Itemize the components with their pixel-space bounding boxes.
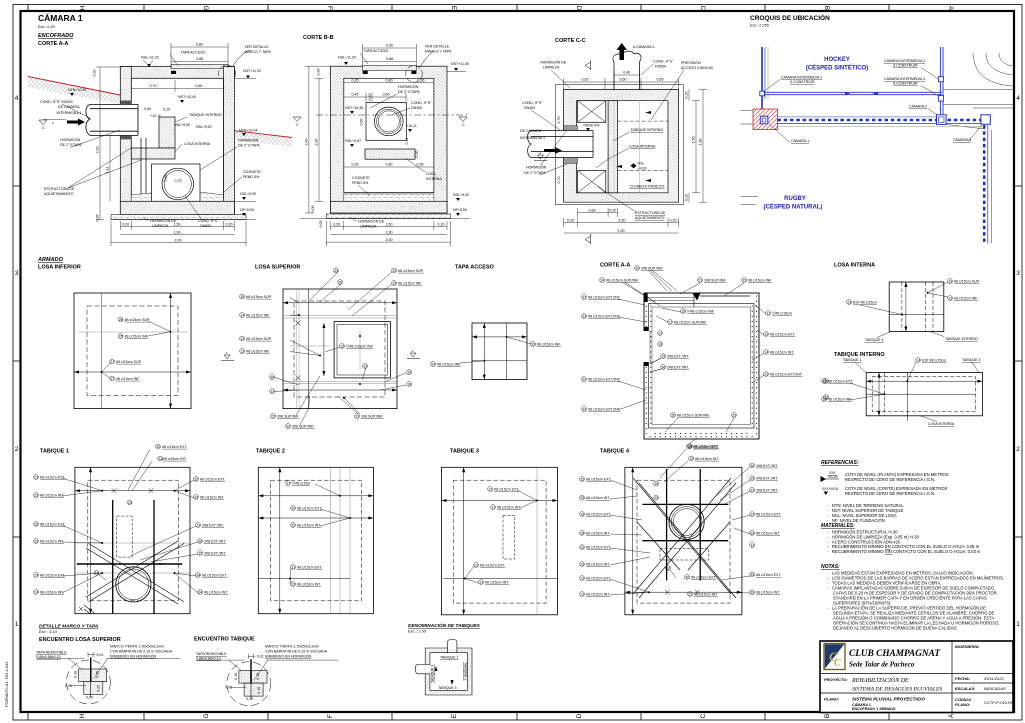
- svg-text:C: C: [42, 126, 45, 130]
- club logo: [824, 644, 845, 670]
- svg-text:RUGBY: RUGBY: [784, 196, 806, 202]
- svg-text:NSL+9,00: NSL+9,00: [453, 193, 469, 197]
- svg-text:CORTE B-B: CORTE B-B: [303, 35, 334, 41]
- svg-text:#8 c/15cm EXT./INT.: #8 c/15cm EXT./INT.: [588, 407, 621, 411]
- svg-text:COND. H°S°: COND. H°S°: [198, 219, 219, 223]
- vertical access pipe to camara 2: [613, 51, 641, 90]
- svg-text:25: 25: [119, 334, 123, 338]
- svg-text:30: 30: [270, 375, 274, 379]
- svg-text:#8 c/15cm EXT.: #8 c/15cm EXT.: [586, 512, 611, 516]
- detail balloon circle: [219, 65, 236, 82]
- svg-text:- RECUBRIMIENTO MÍNIMO SIN C: - RECUBRIMIENTO MÍNIMO SIN CONTACTO CON …: [827, 549, 981, 554]
- svg-text:#8 c/15cm EXT.: #8 c/15cm EXT.: [480, 563, 505, 567]
- svg-text:A CONSTRUIR: A CONSTRUIR: [893, 64, 918, 68]
- svg-text:33: 33: [732, 413, 736, 417]
- svg-text:19: 19: [128, 501, 132, 505]
- svg-text:HOCKEY: HOCKEY: [824, 57, 850, 63]
- svg-text:NSL+9,87: NSL+9,87: [345, 139, 361, 143]
- svg-text:CORTE A-A: CORTE A-A: [38, 41, 68, 47]
- svg-text:23: 23: [531, 342, 535, 346]
- svg-text:EST.#8 c/15cm: EST.#8 c/15cm: [922, 358, 946, 362]
- svg-text:18: 18: [658, 342, 662, 346]
- pipe box bottom: [152, 164, 201, 201]
- svg-text:LOSA INTERNA: LOSA INTERNA: [928, 422, 955, 426]
- svg-text:REFERENCIAS:: REFERENCIAS:: [821, 460, 859, 466]
- svg-text:#8 c/15cm INT.: #8 c/15cm INT.: [586, 592, 610, 596]
- svg-text:13: 13: [240, 349, 244, 353]
- svg-text:Esc.:1:20: Esc.:1:20: [38, 24, 55, 29]
- svg-text:0,65: 0,65: [657, 78, 664, 82]
- svg-text:NTN+10,04: NTN+10,04: [239, 129, 257, 133]
- cojinete speckle band: [131, 192, 223, 201]
- section C marker left: [39, 120, 47, 125]
- svg-text:0,80: 0,80: [196, 84, 203, 88]
- svg-text:+10,11: +10,11: [150, 114, 161, 118]
- LOSA INTERNA labels: [847, 279, 980, 342]
- svg-text:¹/²#8 c/15cm INF.: ¹/²#8 c/15cm INF.: [687, 309, 715, 313]
- svg-text:13: 13: [291, 565, 295, 569]
- svg-text:33: 33: [582, 407, 586, 411]
- svg-text:LOSA: LOSA: [426, 172, 436, 176]
- bottom reference band letters: [79, 713, 955, 718]
- svg-text:#8 c/15cm SUP.: #8 c/15cm SUP.: [246, 295, 272, 299]
- svg-text:LOSA INTERNA: LOSA INTERNA: [629, 145, 656, 149]
- svg-text:EMBEBIDO EN HORMIGÓN: EMBEBIDO EN HORMIGÓN: [265, 653, 312, 658]
- svg-text:2: 2: [15, 446, 19, 453]
- svg-text:0,20: 0,20: [567, 219, 574, 223]
- svg-text:0,20: 0,20: [86, 696, 93, 700]
- svg-text:COND. H°S°: COND. H°S°: [522, 101, 543, 105]
- svg-text:A: A: [539, 151, 541, 155]
- svg-text:13: 13: [750, 488, 754, 492]
- svg-text:0,08: 0,08: [311, 206, 315, 213]
- svg-text:14: 14: [764, 350, 768, 354]
- svg-text:D: D: [575, 6, 582, 11]
- svg-text:23: 23: [34, 475, 38, 479]
- svg-text:#8 c/15cm INT.: #8 c/15cm INT.: [297, 582, 321, 586]
- fig3 dimension labels: [557, 71, 703, 234]
- svg-text:EST.#8 c/15cm: EST.#8 c/15cm: [853, 300, 877, 304]
- svg-text:TAPA ACCESO: TAPA ACCESO: [455, 265, 495, 271]
- svg-text:2,30: 2,30: [315, 139, 319, 146]
- svg-text:18: 18: [95, 571, 99, 575]
- svg-text:ENCOFRADO Y ARMADO: ENCOFRADO Y ARMADO: [852, 707, 896, 711]
- svg-text:¹/²#8 c/15m: ¹/²#8 c/15m: [292, 481, 310, 485]
- svg-text:2,00: 2,00: [175, 239, 182, 243]
- svg-text:E: E: [451, 713, 458, 718]
- svg-text:0,10: 0,10: [74, 671, 78, 678]
- right reference band ticks and numbers: [1014, 186, 1022, 537]
- svg-text:COND. H°S°: COND. H°S°: [653, 60, 674, 64]
- svg-text:15: 15: [654, 496, 658, 500]
- svg-text:TAPA REMOVIBLE: TAPA REMOVIBLE: [196, 652, 227, 656]
- svg-text:Esc.: 1:10: Esc.: 1:10: [39, 629, 58, 634]
- svg-text:LIMPIEZA: LIMPIEZA: [543, 66, 560, 70]
- svg-text:0,05: 0,05: [65, 684, 72, 688]
- svg-text:21: 21: [698, 278, 702, 282]
- svg-text:13: 13: [491, 505, 495, 509]
- left wall: [120, 67, 131, 215]
- right field boundary vertical: [939, 47, 941, 116]
- svg-text:LOSA INTERNA: LOSA INTERNA: [184, 142, 211, 146]
- svg-text:#8 c/15cm INF.: #8 c/15cm INF.: [398, 281, 422, 285]
- svg-text:13: 13: [240, 337, 244, 341]
- svg-text:16: 16: [654, 482, 658, 486]
- svg-text:2#8 EXT./INT.: 2#8 EXT./INT.: [202, 523, 224, 527]
- detail encuentro losa superior: [37, 652, 180, 704]
- LOSA INFERIOR labels: [102, 317, 171, 381]
- svg-text:HORMIGÓN: HORMIGÓN: [526, 165, 547, 170]
- svg-text:#8 c/15cm EXT./INT.: #8 c/15cm EXT./INT.: [588, 314, 621, 318]
- svg-text:TAPA ACCESO: TAPA ACCESO: [364, 49, 389, 53]
- svg-text:NST+11,00: NST+11,00: [243, 69, 261, 73]
- tabique interno vertical strip: [608, 101, 617, 193]
- svg-text:NSL+11,20: NSL+11,20: [338, 56, 356, 60]
- svg-text:#8 c/15cm EXT.: #8 c/15cm EXT.: [756, 573, 781, 577]
- svg-text:13: 13: [948, 296, 952, 300]
- svg-text:13: 13: [687, 445, 691, 449]
- svg-text:4: 4: [1016, 95, 1020, 102]
- svg-text:Sede Talar de Pacheco: Sede Talar de Pacheco: [849, 661, 915, 669]
- svg-text:ENCOFRADO: ENCOFRADO: [38, 33, 74, 39]
- svg-text:23: 23: [34, 493, 38, 497]
- figure CORTE A-A encofrado: [28, 50, 292, 220]
- svg-text:#8 c/15cm EXT./INT.: #8 c/15cm EXT./INT.: [588, 295, 621, 299]
- svg-text:MARCO: PERFIL L 50x50x3,2mm: MARCO: PERFIL L 50x50x3,2mm: [265, 645, 319, 649]
- camara 2 square: [937, 115, 947, 125]
- svg-text:INDICADAS: INDICADAS: [984, 686, 1006, 691]
- svg-text:2#8 EXT./INT.: 2#8 EXT./INT.: [756, 464, 778, 468]
- svg-text:COND. H°S°: COND. H°S°: [411, 101, 432, 105]
- croquis roads black: [741, 53, 1014, 243]
- svg-text:31: 31: [291, 523, 295, 527]
- svg-text:#8 c/15cm SUP.: #8 c/15cm SUP.: [398, 269, 424, 273]
- svg-text:30: 30: [291, 506, 295, 510]
- svg-text:1,50: 1,50: [692, 137, 696, 144]
- svg-text:12: 12: [764, 332, 768, 336]
- tapa slab hatched left of joint: [79, 669, 91, 681]
- svg-text:2: 2: [1016, 446, 1020, 453]
- svg-text:18: 18: [240, 295, 244, 299]
- svg-text:CCTP-P-010-R0: CCTP-P-010-R0: [984, 700, 1014, 705]
- svg-text:18: 18: [580, 512, 584, 516]
- svg-text:0,05: 0,05: [96, 215, 100, 222]
- svg-text:0,60: 0,60: [620, 78, 627, 82]
- svg-text:31: 31: [270, 389, 274, 393]
- svg-text:33: 33: [34, 539, 38, 543]
- terrain red line: [28, 77, 292, 138]
- svg-text:#8 c/15cm EXT.: #8 c/15cm EXT.: [828, 379, 853, 383]
- top opening white: [363, 65, 417, 79]
- svg-text:AQUIETAMIENTO: AQUIETAMIENTO: [44, 192, 74, 196]
- svg-text:FORMATO A1: 594 x 841: FORMATO A1: 594 x 841: [4, 661, 9, 707]
- svg-text:0,34: 0,34: [405, 138, 409, 145]
- svg-text:#8 c/15cm EXT.: #8 c/15cm EXT.: [756, 513, 781, 517]
- svg-text:TAPA ACCESO: TAPA ACCESO: [181, 51, 206, 55]
- hormigon de limpieza strip B-B: [326, 214, 450, 219]
- svg-text:#8 c/15cm INT.: #8 c/15cm INT.: [485, 580, 509, 584]
- svg-text:TABIQUE 4: TABIQUE 4: [600, 449, 630, 455]
- svg-text:INTERMEDIA 1: INTERMEDIA 1: [57, 111, 82, 115]
- svg-text:0,60: 0,60: [383, 93, 390, 97]
- svg-text:#8 c/15cm INT.: #8 c/15cm INT.: [40, 493, 64, 497]
- small direction arrows: [645, 111, 651, 114]
- svg-text:#8 c/15cm SUP.: #8 c/15cm SUP.: [246, 337, 272, 341]
- svg-text:2#8 SUP./INF.: 2#8 SUP./INF.: [641, 266, 664, 270]
- flow arrows on main: [845, 92, 851, 95]
- outer walls hatched: [331, 66, 448, 213]
- svg-text:4: 4: [15, 95, 19, 102]
- svg-text:#8 c/15cm EXT./INT.: #8 c/15cm EXT./INT.: [770, 372, 803, 376]
- svg-text:19: 19: [392, 269, 396, 273]
- wall seal blocks: [120, 101, 131, 105]
- svg-text:PLANO:: PLANO:: [824, 697, 840, 702]
- svg-text:11: 11: [766, 311, 770, 315]
- svg-text:1,50: 1,50: [174, 223, 181, 227]
- pipe stub left: [424, 665, 430, 674]
- fig3 A markers left: [534, 155, 547, 161]
- svg-text:C: C: [700, 713, 707, 718]
- svg-text:(CÉSPED NATURAL): (CÉSPED NATURAL): [764, 203, 823, 211]
- svg-text:17: 17: [668, 320, 672, 324]
- svg-text:0,20: 0,20: [333, 223, 340, 227]
- interior white: [344, 78, 434, 192]
- svg-text:TABIQUE INTERNO: TABIQUE INTERNO: [631, 128, 664, 132]
- svg-text:#8 c/15cm INF.: #8 c/15cm INF.: [125, 334, 149, 338]
- svg-text:MATERIALES:: MATERIALES:: [821, 523, 855, 529]
- svg-text:0,80: 0,80: [196, 43, 203, 47]
- svg-text:CON BARRA #8 DE 0,15 m SOLDADA: CON BARRA #8 DE 0,15 m SOLDADA: [110, 650, 173, 654]
- svg-text:TABIQUE 3: TABIQUE 3: [962, 358, 981, 362]
- svg-text:26: 26: [119, 318, 123, 322]
- top slab: [120, 67, 234, 79]
- svg-text:#8 c/15cm INF.: #8 c/15cm INF.: [748, 278, 772, 282]
- svg-text:22: 22: [431, 362, 435, 366]
- arrow to camara 2: [617, 43, 628, 60]
- svg-text:#8 c/15cm EXT.: #8 c/15cm EXT.: [586, 576, 611, 580]
- svg-text:¹/²#8 c/15cm: ¹/²#8 c/15cm: [772, 311, 792, 315]
- svg-text:2#8 EXT./INT.: 2#8 EXT./INT.: [667, 365, 689, 369]
- svg-text:13: 13: [689, 457, 693, 461]
- svg-text:27: 27: [110, 360, 114, 364]
- svg-text:0,20: 0,20: [438, 223, 445, 227]
- svg-text:0,20: 0,20: [685, 92, 689, 99]
- svg-text:15: 15: [661, 354, 665, 358]
- pipe stub top: [448, 644, 457, 649]
- camara 3 square: [981, 115, 990, 124]
- figure CORTE A-A armado: [644, 293, 759, 439]
- svg-text:NSL+11,20: NSL+11,20: [141, 56, 159, 60]
- svg-text:23: 23: [271, 414, 275, 418]
- svg-text:30: 30: [156, 445, 160, 449]
- svg-text:0,65: 0,65: [164, 175, 168, 182]
- svg-text:0,35: 0,35: [417, 163, 424, 167]
- svg-text:FECHA:: FECHA:: [955, 676, 971, 681]
- svg-text:19: 19: [407, 370, 411, 374]
- svg-text:TABIQUE 1: TABIQUE 1: [440, 656, 459, 660]
- svg-text:C: C: [462, 123, 465, 127]
- svg-text:F: F: [326, 6, 333, 10]
- tapa acceso cover B-B: [363, 66, 417, 71]
- svg-text:30: 30: [635, 266, 639, 270]
- svg-text:D: D: [576, 713, 583, 718]
- figure TABIQUE 2: [258, 467, 373, 613]
- svg-text:CON BARRA #8 DE 0,15 m SOLDADA: CON BARRA #8 DE 0,15 m SOLDADA: [265, 650, 328, 654]
- svg-text:34: 34: [580, 531, 584, 535]
- losa interna hatched: [131, 148, 175, 159]
- svg-text:PROYECTO:: PROYECTO:: [824, 677, 848, 682]
- svg-text:0,35: 0,35: [352, 79, 359, 83]
- TABIQUE 4 labels: [580, 444, 782, 596]
- svg-text:0,70: 0,70: [175, 179, 182, 183]
- svg-text:#8 c/15cm EXT.: #8 c/15cm EXT.: [162, 445, 187, 449]
- svg-text:#8 c/15cm INT.: #8 c/15cm INT.: [756, 591, 780, 595]
- svg-text:A CONSTRUIR: A CONSTRUIR: [790, 80, 815, 84]
- NST line right: [234, 77, 256, 79]
- svg-text:TABIQUE 2: TABIQUE 2: [256, 449, 285, 455]
- svg-text:34: 34: [198, 590, 202, 594]
- svg-text:NSL+9,90: NSL+9,90: [174, 123, 190, 127]
- svg-text:C: C: [699, 6, 706, 11]
- svg-text:0,01: 0,01: [257, 655, 264, 659]
- detail balloon circle B-B: [406, 66, 423, 83]
- svg-text:0,01: 0,01: [97, 653, 104, 657]
- svg-text:32: 32: [286, 424, 290, 428]
- figure TABIQUE INTERNO: [866, 373, 982, 421]
- CORTE A-A armado labels: [582, 266, 829, 449]
- field left boundary line: [761, 47, 763, 116]
- svg-text:24: 24: [34, 590, 38, 594]
- svg-text:0,70: 0,70: [150, 84, 157, 88]
- svg-text:INGENIERÍA:: INGENIERÍA:: [955, 644, 980, 649]
- svg-text:SISTEMA DE DESAGÜES PLUVIALES: SISTEMA DE DESAGÜES PLUVIALES: [852, 685, 942, 693]
- svg-text:COND. H°S° DN400: COND. H°S° DN400: [40, 100, 73, 104]
- main pipe to camara 2 horizontal: [762, 91, 942, 93]
- svg-text:DN400: DN400: [411, 106, 422, 110]
- fig1 leader annotations: [39, 45, 272, 228]
- TABIQUE 1 labels: [34, 444, 229, 594]
- figure LOSA INTERNA: [889, 282, 944, 332]
- svg-text:CÁMARA INTERMEDIA 2: CÁMARA INTERMEDIA 2: [884, 59, 925, 63]
- svg-text:0,65: 0,65: [582, 78, 589, 82]
- svg-text:0,60: 0,60: [589, 209, 596, 213]
- svg-text:SISTEMA PLUVIAL PROYECTADO: SISTEMA PLUVIAL PROYECTADO: [852, 697, 925, 702]
- svg-text:ENCUENTRO LOSA SUPERIOR: ENCUENTRO LOSA SUPERIOR: [39, 637, 121, 643]
- svg-text:HORMIGÓN DE: HORMIGÓN DE: [358, 219, 385, 224]
- estructura de aquietamiento lines: [140, 138, 142, 201]
- svg-text:G: G: [203, 713, 210, 718]
- svg-text:0,20: 0,20: [122, 223, 129, 227]
- svg-text:0,20: 0,20: [685, 194, 689, 201]
- svg-text:CÁMARA INTERMEDIA 1: CÁMARA INTERMEDIA 1: [781, 76, 822, 80]
- svg-text:VER DETALLE: VER DETALLE: [425, 45, 450, 49]
- svg-text:0,88x0,88x0,10: 0,88x0,88x0,10: [196, 657, 221, 661]
- svg-text:#8 c/15cm EXT.: #8 c/15cm EXT.: [770, 332, 795, 336]
- svg-text:PEND.5%: PEND.5%: [243, 175, 260, 179]
- limpieza outline: [555, 85, 683, 205]
- svg-text:32: 32: [582, 377, 586, 381]
- svg-text:CLUB CHAMPAGNAT: CLUB CHAMPAGNAT: [849, 649, 940, 659]
- svg-text:1,90: 1,90: [699, 139, 703, 146]
- svg-text:COJINETE PEND 5%: COJINETE PEND 5%: [630, 185, 666, 189]
- svg-text:0,05: 0,05: [225, 686, 232, 690]
- svg-text:33: 33: [34, 522, 38, 526]
- svg-text:#8 c/15cm INT.: #8 c/15cm INT.: [694, 592, 718, 596]
- cojinete speckle band B-B: [344, 194, 434, 201]
- svg-text:0,20: 0,20: [163, 108, 170, 112]
- svg-text:0,20: 0,20: [226, 223, 233, 227]
- svg-text:TABIQUE INTERNO: TABIQUE INTERNO: [945, 337, 978, 341]
- svg-text:0,15: 0,15: [257, 687, 261, 694]
- svg-text:NSL: NSL: [638, 162, 645, 166]
- svg-text:B: B: [824, 714, 831, 718]
- svg-text:#8 c/15cm EXT.: #8 c/15cm EXT.: [691, 575, 716, 579]
- svg-text:21: 21: [355, 414, 359, 418]
- svg-text:G: G: [202, 5, 209, 10]
- seal block upper: [564, 126, 578, 131]
- bottom slab B-B: [331, 201, 448, 213]
- svg-text:19: 19: [750, 513, 754, 517]
- svg-text:16: 16: [666, 566, 670, 570]
- svg-text:15: 15: [822, 379, 826, 383]
- svg-text:1: 1: [1016, 621, 1020, 628]
- svg-text:#8 c/15cm INT.: #8 c/15cm INT.: [586, 563, 610, 567]
- svg-text:#8 c/15cm INT.: #8 c/15cm INT.: [204, 590, 228, 594]
- svg-text:CÁMARA 1: CÁMARA 1: [791, 139, 809, 143]
- svg-text:C: C: [834, 658, 841, 669]
- joint vertical: [90, 658, 92, 683]
- yellow utility line: [767, 47, 769, 99]
- svg-text:A CONSTRUIR: A CONSTRUIR: [893, 82, 918, 86]
- svg-text:TABIQUE 3: TABIQUE 3: [450, 449, 479, 455]
- svg-text:MARCO Y TAPA: MARCO Y TAPA: [245, 50, 272, 54]
- svg-text:27: 27: [110, 377, 114, 381]
- svg-text:0,36: 0,36: [418, 79, 425, 83]
- dashed collector main: [777, 119, 984, 122]
- detail encuentro tabique: [197, 654, 338, 706]
- svg-text:#8 c/15cm INT.: #8 c/15cm INT.: [770, 350, 794, 354]
- svg-text:NSL+9,00: NSL+9,00: [240, 192, 256, 196]
- svg-text:26: 26: [338, 280, 342, 284]
- svg-text:2#8 EXT./INT.: 2#8 EXT./INT.: [756, 488, 778, 492]
- svg-text:NST+10,40: NST+10,40: [345, 106, 363, 110]
- croquis pipe network blue: [762, 47, 988, 244]
- seal block lower: [564, 158, 578, 164]
- svg-text:33: 33: [750, 591, 754, 595]
- svg-text:1,90: 1,90: [174, 231, 181, 235]
- svg-text:#8 c/15cm INT.: #8 c/15cm INT.: [497, 505, 521, 509]
- pipe inlet C-C: [562, 131, 593, 158]
- svg-text:¹/²#8 c/15cm INF.: ¹/²#8 c/15cm INF.: [346, 344, 374, 348]
- svg-text:#8 c/15cm EXT.: #8 c/15cm EXT.: [586, 545, 611, 549]
- svg-text:32: 32: [194, 477, 198, 481]
- svg-text:34: 34: [196, 573, 200, 577]
- svg-text:TABIQUE INTERNO: TABIQUE INTERNO: [189, 113, 222, 117]
- marco slab hatched right of joint: [91, 669, 107, 681]
- svg-text:CÁMARA 3: CÁMARA 3: [953, 138, 971, 142]
- svg-text:NST+11,00: NST+11,00: [451, 62, 469, 66]
- svg-text:CORTE C-C: CORTE C-C: [555, 38, 586, 44]
- svg-text:19: 19: [750, 531, 754, 535]
- top reference band ticks: [28, 5, 889, 12]
- losa interna hatch B-B: [365, 149, 415, 159]
- svg-text:2#8 EXT./INT.: 2#8 EXT./INT.: [667, 354, 689, 358]
- figure CORTE B-B: [300, 51, 470, 219]
- svg-text:PLANO:: PLANO:: [955, 702, 971, 707]
- svg-text:0,30: 0,30: [93, 70, 97, 77]
- svg-text:0,45: 0,45: [352, 93, 359, 97]
- detail labels left: [36, 645, 173, 660]
